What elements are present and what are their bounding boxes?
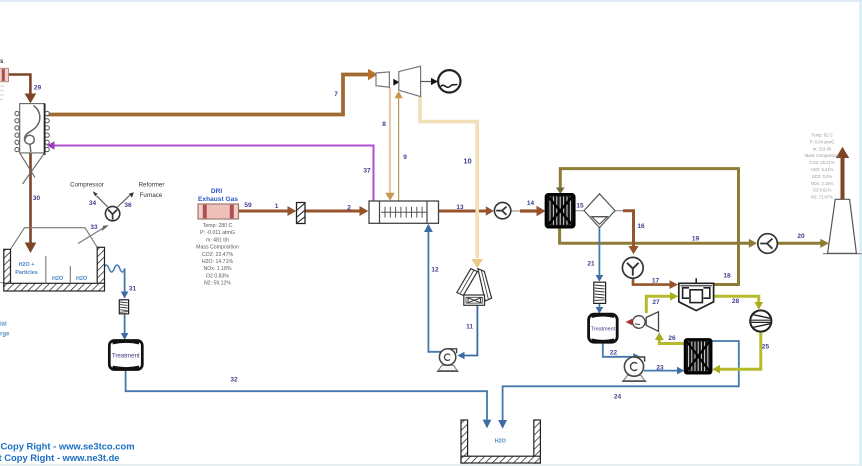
svg-text:25: 25: [762, 344, 770, 351]
compressor2 (circle with chords): [750, 310, 771, 331]
svg-text:26: 26: [668, 335, 676, 342]
svg-text:CO2: 25.21%: CO2: 25.21%: [809, 160, 834, 165]
pink source box left edge (clipped): [0, 68, 9, 99]
svg-text:Exhaust Gas: Exhaust Gas: [198, 196, 238, 203]
svg-text:m: 481 t/h: m: 481 t/h: [206, 237, 229, 243]
svg-text:23: 23: [656, 365, 664, 372]
wire crossing overlays: [475, 203, 479, 219]
svg-text:H2O: 14.71%: H2O: 14.71%: [202, 259, 234, 265]
cyclone / filter diamond: [584, 194, 615, 228]
svg-text:DRI: DRI: [211, 188, 223, 195]
wire stream 29 (pink source to quench vessel): [9, 75, 37, 104]
svg-text:Mass Composition: Mass Composition: [805, 153, 840, 158]
generator1: [438, 70, 460, 92]
svg-text:18: 18: [723, 273, 731, 280]
svg-text:15: 15: [576, 203, 584, 210]
svg-text:m: 313 t/h: m: 313 t/h: [813, 146, 832, 151]
svg-text:22: 22: [610, 350, 618, 357]
wire tank left stub: [0, 282, 4, 284]
svg-text:59: 59: [244, 202, 252, 209]
svg-text:16: 16: [637, 223, 645, 230]
blower2 (before combustor): [622, 257, 643, 278]
svg-text:36: 36: [124, 202, 132, 209]
wire stack exhaust arrow: [836, 147, 849, 199]
svg-text:P: 0.04 atmG: P: 0.04 atmG: [810, 139, 835, 144]
svg-text:21: 21: [587, 261, 595, 268]
svg-text:Particles: Particles: [15, 270, 37, 276]
stack: [823, 199, 862, 253]
svg-text:Temp: 280 C: Temp: 280 C: [203, 223, 233, 229]
svg-text:N2: 59.12%: N2: 59.12%: [204, 281, 231, 287]
svg-text:31: 31: [129, 286, 137, 293]
wire stream 30 (quench vessel to tank): [25, 150, 37, 253]
svg-text:7: 7: [334, 91, 338, 98]
filter2 (diagonal hatch after DRI box): [297, 203, 306, 224]
wire stream 10 (turbine exhaust to cooling tower): [420, 97, 483, 269]
svg-text:H2O +: H2O +: [19, 262, 35, 268]
wire stream 11 (cooling tower to pump1): [457, 305, 477, 359]
treatment1 drum: [109, 341, 142, 370]
wire stream 16 (cyclone to blower2): [615, 211, 639, 255]
svg-text:8: 8: [382, 121, 386, 128]
left edge clipped texts: [0, 59, 10, 338]
wire stream 15 (black HX to cyclone): [574, 210, 584, 212]
svg-text:11: 11: [466, 324, 473, 331]
pump2: [622, 357, 646, 381]
svg-text:10: 10: [463, 157, 471, 166]
wire stream 36 (to reformer furnace): [118, 192, 134, 207]
svg-text:12: 12: [431, 267, 439, 274]
wire stream 21 (cyclone to filter3 to treatment2): [596, 228, 604, 314]
svg-text:20: 20: [797, 233, 805, 240]
svg-text:Mass Composition: Mass Composition: [196, 245, 239, 251]
wire stream 17 (blower2 to combustor): [633, 278, 678, 289]
svg-text:NOx: 1.18%: NOx: 1.18%: [204, 266, 232, 272]
svg-text:27: 27: [652, 299, 660, 306]
wire stream 19 (black HX to blower3): [560, 227, 757, 248]
wire stream 9 (HX to turbine): [394, 91, 402, 201]
central heat exchanger: [369, 201, 439, 223]
wire stream 32 (treatment1 to water tank): [126, 370, 492, 429]
wire stream 25 (compressor2 to black HX2): [712, 332, 761, 374]
svg-text:24: 24: [614, 394, 622, 401]
wire stream 13 (HX to blower): [439, 206, 494, 215]
svg-text:2: 2: [347, 205, 351, 212]
turbine2 with generator and power arrow: [626, 312, 659, 332]
pump1 (cooling water): [437, 349, 459, 371]
svg-text:19: 19: [692, 236, 700, 243]
svg-text:33: 33: [90, 224, 98, 231]
svg-text:Temp: 82 C: Temp: 82 C: [811, 133, 832, 138]
blower3 (before stack): [758, 234, 778, 254]
wire stream 26 (black HX2 to turbine2): [655, 332, 685, 343]
wire stream 27 (turbine2 to combustor): [646, 292, 678, 313]
wire stream 14 (blower to black HX): [511, 206, 546, 216]
Y splitter to compressor/reformer: [105, 206, 119, 220]
wire stream 31 (tank weir wave to filter1 to treatment1): [104, 265, 129, 340]
combustor: [679, 278, 714, 310]
svg-text:t Copy Right - www.ne3t.de: t Copy Right - www.ne3t.de: [0, 452, 120, 463]
copyright lines: [0, 441, 135, 463]
svg-text:rge: rge: [0, 332, 10, 338]
svg-text:H2O: 5.21%: H2O: 5.21%: [811, 167, 834, 172]
svg-text:O2 8.81%: O2 8.81%: [813, 188, 832, 193]
svg-text:N2: 71.97%: N2: 71.97%: [811, 195, 833, 200]
black heat exchanger 1: [546, 194, 574, 227]
cooling tower: [457, 269, 492, 306]
svg-text:H2O: H2O: [76, 276, 87, 282]
svg-text:9: 9: [403, 154, 407, 161]
stream number labels: [33, 85, 805, 401]
wire stream 23 (pump2 to black HX2): [644, 367, 684, 375]
wire stream 18 (combustor to black HX top): [556, 169, 739, 285]
DRI gas property text: [196, 223, 239, 287]
svg-text:O2 0.83%: O2 0.83%: [206, 273, 229, 279]
scrubber water tank: [4, 228, 105, 291]
svg-text:ial: ial: [0, 322, 7, 328]
svg-text:NOx: 2.15%: NOx: 2.15%: [811, 181, 834, 186]
wire stream 34 (to compressor): [93, 191, 108, 207]
svg-text:H2O: H2O: [495, 439, 506, 445]
svg-text:SO2: 0.0%: SO2: 0.0%: [812, 174, 833, 179]
wire stream 2 (filter to HX): [305, 206, 368, 216]
wire stream 24 (black HX2 to water tank): [498, 341, 739, 429]
svg-text:1: 1: [275, 203, 279, 210]
svg-text:H2O: H2O: [52, 276, 63, 282]
treatment2 drum: [589, 314, 618, 342]
svg-text:Compressor: Compressor: [70, 182, 104, 189]
svg-text:Furnace: Furnace: [140, 192, 163, 199]
turbine set: inlet guide + turbine: [376, 66, 438, 96]
svg-text:14: 14: [527, 200, 535, 207]
stack property text: [805, 133, 840, 200]
wire stream 33 (tank to Y splitter): [78, 225, 109, 243]
svg-text:17: 17: [652, 278, 660, 285]
svg-text:Reformer: Reformer: [139, 182, 165, 189]
wire stream 28 (combustor to compressor2): [714, 296, 763, 310]
svg-text:28: 28: [732, 298, 740, 305]
svg-text:P: -0.011 atmG: P: -0.011 atmG: [200, 230, 235, 236]
svg-text:Copy Right - www.se3tco.com: Copy Right - www.se3tco.com: [1, 441, 135, 452]
svg-text:32: 32: [230, 377, 238, 384]
svg-text:13: 13: [456, 204, 464, 211]
filter1 (tank outlet): [119, 300, 128, 314]
component text labels: [15, 182, 615, 445]
filter3: [594, 282, 606, 303]
wire hot gas from quench vessel + stream 7 to turbine: [46, 69, 378, 115]
wire stream 22 (treatment2 to pump2): [603, 342, 640, 360]
svg-text:29: 29: [34, 85, 42, 92]
water tank H2O (bottom): [461, 420, 540, 463]
quench vessel with coil: [15, 104, 49, 184]
svg-text:Treatment: Treatment: [112, 353, 140, 360]
svg-text:Treatment: Treatment: [591, 327, 616, 333]
svg-text:37: 37: [363, 168, 371, 175]
black heat exchanger 2: [685, 339, 711, 373]
wire stream 37 purple recycle to quench vessel: [47, 141, 374, 201]
DRI exhaust gas source box: [198, 204, 239, 219]
svg-text:30: 30: [33, 195, 41, 202]
blower1 (after central HX): [494, 202, 510, 218]
wire stream 20 (blower3 to stack): [777, 239, 829, 248]
wire stream 8 (turbine bleed down to HX): [385, 87, 394, 201]
wire stream 12 (pump1 to HX bottom): [424, 224, 441, 352]
svg-text:CO2: 23.47%: CO2: 23.47%: [202, 252, 234, 258]
svg-text:34: 34: [89, 200, 97, 207]
wire stream 59 / 1 (DRI gas to filter): [239, 206, 297, 216]
